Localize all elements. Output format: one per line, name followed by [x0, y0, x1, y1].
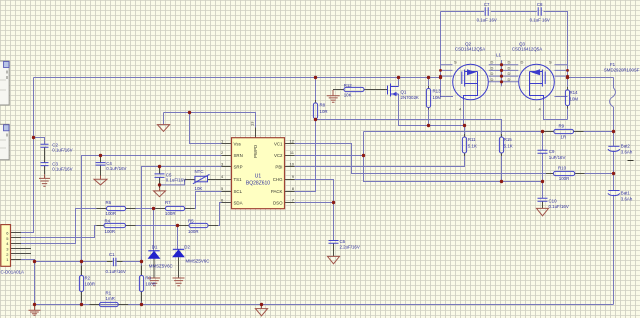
svg-text:CHG: CHG	[273, 177, 283, 182]
svg-text:BQ28Z610: BQ28Z610	[246, 181, 270, 187]
svg-text:PACK: PACK	[271, 189, 283, 194]
svg-text:10K: 10K	[344, 93, 352, 98]
svg-text:TS1: TS1	[234, 177, 243, 182]
svg-text:C10: C10	[549, 199, 558, 204]
svg-text:R15: R15	[504, 137, 513, 142]
svg-text:D: D	[491, 60, 494, 65]
svg-text:1uF/16V: 1uF/16V	[549, 155, 566, 160]
svg-text:2N7002K: 2N7002K	[401, 95, 419, 100]
svg-text:100R: 100R	[85, 282, 96, 287]
svg-text:0.1uF 16V: 0.1uF 16V	[477, 18, 497, 23]
svg-text:2.2uF/16V: 2.2uF/16V	[340, 245, 360, 250]
svg-text:R9: R9	[559, 124, 565, 129]
svg-text:CSD16412Q5A: CSD16412Q5A	[455, 47, 485, 52]
svg-text:5.1K: 5.1K	[468, 144, 477, 149]
svg-text:D: D	[508, 71, 511, 76]
svg-text:L1: L1	[496, 53, 501, 58]
svg-text:R1: R1	[106, 291, 112, 296]
svg-text:10R: 10R	[320, 109, 328, 114]
svg-text:R11: R11	[468, 137, 476, 142]
svg-text:C8: C8	[537, 2, 543, 7]
svg-text:Vss: Vss	[234, 142, 242, 147]
svg-text:SMD2920R100SF: SMD2920R100SF	[604, 68, 640, 73]
svg-text:5.1K: 5.1K	[504, 144, 513, 149]
svg-text:D: D	[508, 77, 511, 82]
svg-text:100R: 100R	[105, 229, 116, 234]
svg-text:0.1uF/16V: 0.1uF/16V	[166, 177, 186, 182]
svg-text:PWPD: PWPD	[253, 145, 258, 158]
svg-text:Bat2: Bat2	[621, 144, 631, 149]
svg-text:SDA: SDA	[234, 201, 243, 206]
svg-text:100R: 100R	[559, 176, 570, 181]
svg-text:0.1uF/16V: 0.1uF/16V	[106, 166, 126, 171]
svg-text:C-D01A01A: C-D01A01A	[1, 269, 24, 274]
svg-text:100R: 100R	[165, 211, 176, 216]
svg-text:SCL: SCL	[234, 189, 243, 194]
svg-text:PBI: PBI	[275, 165, 282, 170]
svg-text:R14: R14	[570, 90, 579, 95]
svg-text:S: S	[454, 60, 457, 65]
svg-text:C9: C9	[549, 149, 555, 154]
svg-text:R12: R12	[344, 83, 353, 88]
svg-text:R4: R4	[105, 219, 111, 224]
svg-text:CSD16412Q5A: CSD16412Q5A	[512, 47, 542, 52]
svg-text:R10: R10	[558, 166, 567, 171]
svg-text:D: D	[491, 77, 494, 82]
svg-text:3.6Ah: 3.6Ah	[621, 150, 633, 155]
svg-text:D2: D2	[184, 244, 190, 249]
svg-text:10M: 10M	[433, 95, 442, 100]
svg-text:MMSZ5V6C: MMSZ5V6C	[186, 258, 210, 263]
svg-text:1mR: 1mR	[106, 296, 115, 301]
svg-text:10: 10	[290, 162, 295, 167]
svg-text:R7: R7	[165, 200, 171, 205]
svg-text:0.1uF/16V: 0.1uF/16V	[52, 148, 72, 153]
svg-text:1R: 1R	[561, 134, 567, 139]
svg-text:C6: C6	[340, 239, 346, 244]
svg-text:D: D	[491, 65, 494, 70]
svg-text:R13: R13	[433, 89, 442, 94]
svg-text:D: D	[521, 60, 524, 65]
svg-text:Q1: Q1	[401, 90, 407, 95]
svg-text:Bat1: Bat1	[621, 190, 631, 195]
svg-text:R3: R3	[145, 276, 151, 281]
svg-text:R8: R8	[320, 103, 326, 108]
svg-text:10M: 10M	[570, 97, 579, 102]
svg-text:D: D	[491, 71, 494, 76]
svg-text:S: S	[549, 60, 552, 65]
svg-text:R2: R2	[85, 276, 91, 281]
svg-text:0.1uF 16V: 0.1uF 16V	[530, 18, 550, 23]
svg-text:10K: 10K	[195, 186, 203, 191]
svg-text:100R: 100R	[145, 282, 156, 287]
svg-text:100R: 100R	[106, 211, 117, 216]
svg-text:F1: F1	[610, 62, 616, 67]
svg-text:R6: R6	[106, 200, 112, 205]
svg-text:VC1: VC1	[274, 142, 283, 147]
svg-text:U1: U1	[255, 174, 262, 180]
svg-text:DSO: DSO	[273, 201, 283, 206]
svg-text:3.6Ah: 3.6Ah	[621, 196, 633, 201]
svg-text:R5: R5	[188, 219, 194, 224]
svg-text:0.1uF/16V: 0.1uF/16V	[52, 167, 72, 172]
svg-text:12: 12	[290, 139, 295, 144]
svg-text:C1: C1	[109, 252, 115, 257]
svg-text:0.1uF/16V: 0.1uF/16V	[549, 204, 569, 209]
svg-text:D: D	[508, 65, 511, 70]
svg-text:SRN: SRN	[234, 153, 243, 158]
svg-text:13: 13	[250, 121, 255, 126]
svg-text:0.1uF/16V: 0.1uF/16V	[106, 269, 126, 274]
svg-text:C7: C7	[484, 2, 490, 7]
svg-text:MMSZ5V6C: MMSZ5V6C	[149, 263, 173, 268]
svg-text:D: D	[508, 60, 511, 65]
svg-text:100R: 100R	[188, 229, 199, 234]
svg-text:SRP: SRP	[234, 165, 243, 170]
svg-text:NTC: NTC	[195, 169, 204, 174]
svg-text:D1: D1	[152, 245, 158, 250]
svg-text:VC2: VC2	[274, 153, 283, 158]
